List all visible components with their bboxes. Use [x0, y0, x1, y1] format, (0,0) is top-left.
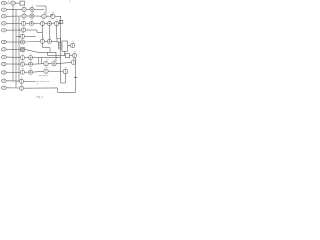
- wire: [6, 15, 21, 17]
- wire: [58, 91, 76, 93]
- valve V9a: [20, 56, 24, 60]
- port P13: [1, 86, 6, 89]
- port P11: [1, 71, 6, 74]
- wire: [59, 48, 63, 50]
- wire: [36, 5, 46, 7]
- gauge G6: [20, 34, 24, 38]
- port P9: [1, 55, 6, 58]
- junction J2: [60, 16, 61, 17]
- blower BL1: [71, 60, 76, 65]
- wire: [42, 43, 44, 47]
- pump PM9: [44, 69, 48, 73]
- wire: [75, 58, 77, 92]
- wire: [6, 41, 20, 43]
- wire: [6, 63, 20, 65]
- wire: [45, 6, 47, 14]
- arrow A6: [19, 36, 21, 37]
- wire: [34, 22, 41, 24]
- wire: [41, 58, 43, 64]
- wire: [36, 30, 38, 32]
- wire: [48, 63, 52, 65]
- wire: [34, 8, 44, 10]
- valve V5: [21, 28, 25, 32]
- wire: [15, 2, 20, 4]
- wire: [25, 41, 37, 44]
- compressor CP1: [63, 69, 68, 74]
- pump PM2: [51, 14, 55, 18]
- meter M1: [11, 1, 15, 5]
- wire: [26, 29, 37, 31]
- wire: [59, 42, 63, 44]
- box B6: [57, 39, 61, 42]
- gauge G4a: [40, 21, 44, 25]
- wire: [58, 42, 60, 49]
- pump PM3: [40, 39, 44, 43]
- junction T1: [74, 77, 78, 78]
- valve V10a: [20, 62, 24, 66]
- wire: [33, 71, 44, 72]
- valve V2b: [30, 7, 34, 11]
- valve V9b: [28, 56, 32, 60]
- box B10: [66, 54, 70, 58]
- port P8: [1, 48, 6, 51]
- wire bus X60: [60, 17, 62, 84]
- pump PM8: [52, 62, 56, 66]
- pump PM7: [44, 62, 48, 66]
- wire: [61, 55, 66, 57]
- wire: [49, 48, 51, 53]
- valve V2a: [22, 7, 26, 11]
- wire: [38, 51, 56, 53]
- wire: [55, 15, 61, 17]
- wire: [25, 35, 36, 37]
- wire: [56, 62, 71, 63]
- wire: [55, 52, 57, 61]
- port P2: [1, 8, 6, 11]
- port P10: [1, 62, 6, 65]
- wire: [59, 44, 63, 46]
- wire: [52, 40, 57, 42]
- valve V3b: [30, 14, 34, 18]
- port P5: [1, 29, 6, 32]
- wire: [48, 70, 63, 72]
- wire: [25, 63, 29, 65]
- wire: [6, 29, 21, 31]
- wire bus X19: [18, 16, 20, 81]
- wire: [6, 87, 19, 89]
- wire: [6, 2, 11, 4]
- wire: [45, 23, 48, 25]
- reference numerals: [8, 0, 75, 85]
- pump PM1: [42, 14, 46, 18]
- port P7: [1, 40, 6, 43]
- port P4: [1, 22, 6, 25]
- wire: [61, 82, 66, 84]
- wire: [6, 56, 20, 58]
- wire: [42, 26, 44, 40]
- port P3: [1, 15, 6, 18]
- wire: [33, 63, 44, 65]
- gauge G4b: [47, 21, 51, 25]
- wire: [65, 74, 67, 83]
- valve V7: [20, 40, 24, 44]
- wire: [26, 8, 30, 10]
- port P1: [1, 1, 6, 4]
- valve V11a: [20, 70, 24, 74]
- wire: [70, 55, 73, 57]
- junction J1: [15, 3, 16, 4]
- valve V12: [19, 79, 23, 83]
- valve V13: [19, 86, 23, 90]
- valve V4b: [29, 21, 33, 25]
- pump PM4: [47, 39, 51, 43]
- wire: [48, 55, 61, 57]
- wire: [56, 26, 58, 39]
- wire: [52, 23, 55, 25]
- arrow A5: [19, 29, 21, 30]
- wire: [25, 71, 29, 73]
- wire: [6, 48, 20, 50]
- wire: [59, 22, 61, 25]
- wire: [34, 15, 42, 17]
- wire bus X13: [12, 5, 14, 81]
- wire: [38, 58, 40, 64]
- wire: [26, 22, 30, 24]
- wire: [25, 49, 38, 52]
- port P12: [1, 79, 6, 82]
- wire: [37, 81, 50, 83]
- wire: [24, 87, 58, 89]
- wire: [68, 45, 71, 47]
- motor M2: [71, 43, 75, 47]
- wire: [47, 52, 49, 55]
- wire: [49, 26, 51, 40]
- wire: [6, 8, 21, 10]
- wire: [33, 57, 61, 59]
- box B1: [20, 1, 25, 5]
- svg-text:Fig. 2: Fig. 2: [37, 96, 44, 99]
- wire: [6, 80, 19, 82]
- box B4: [59, 20, 63, 23]
- valve V11b: [28, 70, 32, 74]
- wire label L1: [39, 75, 49, 77]
- wire: [16, 35, 20, 37]
- wire: [37, 31, 43, 33]
- valve V4a: [21, 21, 25, 25]
- wire: [26, 15, 30, 17]
- wire: [24, 80, 36, 82]
- wire: [57, 88, 59, 92]
- wire: [37, 40, 41, 42]
- fan F1: [72, 53, 76, 57]
- wire: [6, 71, 20, 73]
- controller U1: [62, 41, 68, 52]
- wire: [6, 22, 21, 24]
- wire: [43, 47, 51, 49]
- valve V3a: [22, 14, 26, 18]
- valve V8: [21, 48, 25, 52]
- wire: [59, 46, 63, 48]
- wire: [45, 40, 48, 42]
- wire: [46, 15, 50, 17]
- wire: [64, 52, 66, 56]
- wire bus X16: [15, 9, 17, 88]
- wire: [25, 57, 29, 59]
- gauge G4c: [54, 21, 58, 25]
- valve V10b: [28, 62, 32, 66]
